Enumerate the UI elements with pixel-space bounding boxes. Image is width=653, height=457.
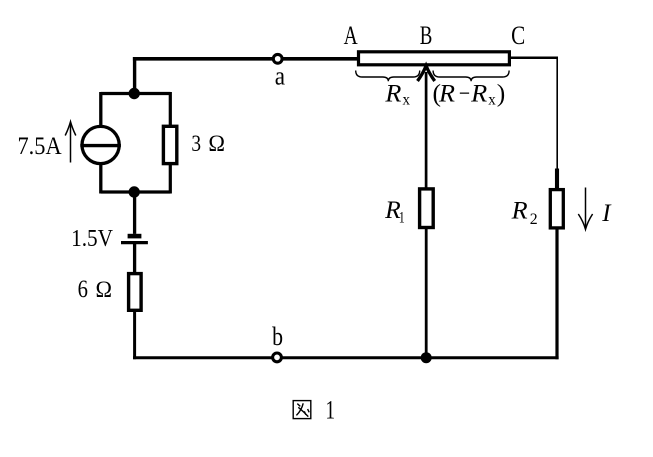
- wire current-source upper lead: [99, 92, 102, 128]
- svg-text:x: x: [403, 92, 411, 109]
- svg-text:−: −: [459, 81, 470, 108]
- battery long thin plate: [121, 241, 148, 244]
- resistor 3 ohm body: [163, 126, 176, 163]
- wire junction to battery: [133, 192, 136, 234]
- wire slide resistor C end to right corner: [509, 56, 558, 59]
- svg-text:6: 6: [78, 276, 88, 303]
- underbrace Rx section: [356, 71, 420, 82]
- svg-text:Ω: Ω: [96, 277, 113, 302]
- wire 3-ohm branch lower lead: [169, 164, 172, 194]
- battery short thick plate: [128, 234, 142, 239]
- caption figure glyph (zu): [293, 401, 311, 419]
- svg-text:1: 1: [325, 396, 335, 425]
- svg-text:a: a: [275, 62, 286, 91]
- svg-text:b: b: [272, 322, 283, 351]
- svg-text:2: 2: [530, 211, 538, 228]
- node junction dot bottom rail: [421, 352, 432, 363]
- svg-text:B: B: [420, 20, 433, 50]
- wire battery to 6-ohm: [133, 244, 136, 274]
- wiper arrow shaft B to R1: [425, 72, 428, 190]
- svg-text:A: A: [344, 20, 358, 50]
- wire left vertical drop from top rail: [133, 57, 136, 94]
- wiper arrowhead: [418, 66, 435, 81]
- svg-text:3: 3: [191, 131, 201, 156]
- svg-text:R: R: [511, 198, 528, 225]
- svg-text:): ): [497, 79, 506, 108]
- terminal b open circle: [273, 353, 282, 362]
- svg-text:R: R: [470, 81, 487, 108]
- current source internal bar: [80, 144, 121, 147]
- svg-text:1: 1: [399, 210, 405, 227]
- wire parallel-section bottom rail: [101, 190, 171, 193]
- current source circle: [82, 126, 119, 163]
- svg-text:R: R: [438, 81, 455, 108]
- resistor R1 body: [420, 189, 434, 228]
- svg-text:C: C: [511, 20, 525, 50]
- wire bottom rail left segment: [133, 356, 426, 359]
- underbrace (R-Rx) section: [433, 71, 509, 82]
- wire R1 to bottom rail: [425, 227, 428, 358]
- svg-text:Ω: Ω: [208, 131, 225, 156]
- wire R2 to bottom rail: [555, 227, 558, 360]
- wire current-source lower lead: [99, 163, 102, 194]
- slide-wire resistor R body (A-C): [359, 52, 510, 65]
- svg-text:7.5A: 7.5A: [18, 133, 62, 160]
- node junction dot bottom: [129, 186, 140, 197]
- wire top rail left (node a rail): [133, 57, 358, 61]
- resistor R2 body: [550, 190, 563, 228]
- resistor 6 ohm body: [129, 274, 142, 311]
- node junction dot top: [129, 88, 140, 99]
- svg-text:1.5V: 1.5V: [71, 225, 113, 252]
- wire R2 upper thick lead: [555, 169, 559, 191]
- svg-text:x: x: [488, 92, 496, 109]
- wire 6-ohm to bottom rail: [133, 311, 136, 360]
- current arrow I: [578, 188, 592, 230]
- wire parallel-section top rail: [101, 92, 171, 95]
- arrow up beside current source: [65, 122, 76, 163]
- svg-text:R: R: [384, 80, 401, 107]
- wire bottom rail right segment: [426, 356, 558, 359]
- wire right vertical thin: [556, 57, 558, 171]
- terminal a open circle: [273, 54, 282, 63]
- wire 3-ohm branch upper lead: [169, 92, 172, 127]
